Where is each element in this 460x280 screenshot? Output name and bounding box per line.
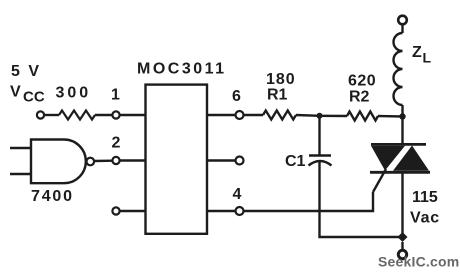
svg-text:7400: 7400 xyxy=(31,188,74,205)
resistor R2 620 xyxy=(347,112,378,121)
wire pin 2 to U1 xyxy=(120,159,146,161)
NAND gate 7400 input wire top xyxy=(10,147,31,149)
terminal top (line input) xyxy=(398,16,407,25)
resistor 300 xyxy=(59,111,95,120)
svg-text:CC: CC xyxy=(23,89,45,106)
wire U1 middle right stub xyxy=(207,159,236,161)
svg-text:R1: R1 xyxy=(267,87,288,104)
svg-text:Vac: Vac xyxy=(410,210,440,227)
svg-text:MOC3011: MOC3011 xyxy=(137,61,227,78)
wire ZL to node B xyxy=(401,105,403,117)
pin 1 terminal xyxy=(112,111,119,118)
svg-text:1: 1 xyxy=(111,87,120,104)
wire gate output to pin 2 terminal xyxy=(94,159,112,162)
wire node A down to C1 xyxy=(318,116,320,156)
optocoupler U1 MOC3011 body xyxy=(146,85,208,234)
svg-text:R2: R2 xyxy=(349,89,370,106)
wire gate diagonal xyxy=(373,169,386,192)
svg-text:C1: C1 xyxy=(285,153,306,170)
svg-text:2: 2 xyxy=(112,135,121,152)
wire resistor to pin 1 xyxy=(95,114,112,116)
inductor ZL xyxy=(393,33,402,105)
wire U1 to pin 4 terminal xyxy=(207,210,236,212)
svg-text:6: 6 xyxy=(232,88,241,105)
triac right triangle xyxy=(393,146,429,171)
wire node B to triac xyxy=(401,117,403,146)
wire node A to R2 xyxy=(320,115,348,118)
wire C1 down to bottom bus xyxy=(320,162,403,237)
node C junction dot xyxy=(398,232,408,242)
triac bottom bar xyxy=(370,171,430,174)
node A junction dot xyxy=(317,113,323,119)
NAND gate 7400 inversion bubble xyxy=(87,158,95,166)
node B junction dot xyxy=(399,113,405,119)
triac top bar xyxy=(371,143,426,146)
NAND gate 7400 input wire bottom xyxy=(10,173,31,175)
capacitor C1 curved plate xyxy=(309,161,332,166)
wire node C to bottom terminal xyxy=(401,242,403,250)
svg-text:180: 180 xyxy=(266,71,296,88)
terminal Vcc xyxy=(37,111,44,118)
triac left triangle xyxy=(371,146,405,171)
wire Vcc to resistor xyxy=(44,114,59,116)
wire U1 to pin 6 terminal xyxy=(207,114,236,116)
pin 3 terminal (bottom left) xyxy=(112,207,119,214)
capacitor C1 top plate xyxy=(309,154,331,157)
svg-text:300: 300 xyxy=(56,85,92,102)
label ZL xyxy=(412,44,432,66)
wire pin 3 to U1 xyxy=(120,210,146,212)
wire pin 6 to R1 xyxy=(244,114,264,116)
svg-text:5 V: 5 V xyxy=(11,63,41,80)
svg-text:4: 4 xyxy=(233,186,242,203)
svg-text:SeekIC.com: SeekIC.com xyxy=(378,254,459,270)
pin 4 terminal xyxy=(236,207,244,215)
svg-text:V: V xyxy=(10,84,21,101)
label Vcc xyxy=(10,84,45,106)
middle right terminal xyxy=(236,157,244,165)
terminal bottom (line return) xyxy=(398,250,406,258)
svg-text:115: 115 xyxy=(412,189,438,206)
resistor R1 180 xyxy=(263,111,296,120)
NAND gate 7400 body xyxy=(31,140,86,184)
svg-text:620: 620 xyxy=(348,73,376,90)
wire terminal to ZL xyxy=(401,25,403,34)
svg-text:L: L xyxy=(423,50,432,66)
wire pin 4 to gate corner xyxy=(244,192,374,211)
pin 6 terminal xyxy=(236,111,244,119)
svg-text:Z: Z xyxy=(412,44,422,61)
wire triac to node C xyxy=(401,172,403,237)
wire R1 to node A xyxy=(296,114,320,117)
pin 2 terminal xyxy=(112,157,119,164)
wire pin 1 to U1 xyxy=(120,114,146,116)
wire R2 to node B xyxy=(378,115,403,118)
